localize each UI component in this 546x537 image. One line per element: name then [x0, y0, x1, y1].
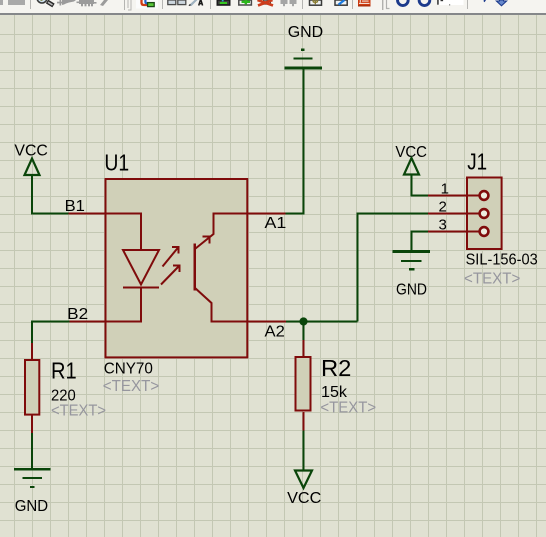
toolbar icon: red list	[358, 0, 371, 7]
toolbar icon: pointer	[57, 0, 76, 6]
toolbar separator 5	[302, 0, 303, 9]
power symbol VCC right	[404, 158, 419, 175]
pin circle 1 of J1	[480, 191, 489, 200]
pin A1 of U1	[246, 213, 286, 215]
svg-text:GND: GND	[15, 498, 48, 515]
svg-text:1: 1	[441, 180, 449, 197]
pin B2 of U1	[70, 321, 107, 323]
wire B2 to R1	[32, 322, 70, 344]
toolbar icon: edit text pen	[189, 0, 203, 6]
svg-text:VCC: VCC	[287, 490, 321, 507]
svg-text:A1: A1	[265, 215, 287, 232]
wire R2 to VCC bottom	[303, 431, 305, 471]
resistor R2 bottom pin	[303, 412, 305, 431]
wire VCC right to J1 pin1	[412, 176, 429, 196]
LED cathode bar	[123, 287, 159, 289]
junction dot node A2	[299, 317, 307, 325]
toolbar separator 1	[30, 0, 31, 9]
toolbar icon: square b	[178, 0, 186, 5]
phototransistor base bar	[193, 244, 196, 291]
wire J1 pin3 to ground right	[412, 232, 429, 252]
power symbol VCC left	[25, 159, 40, 176]
resistor R1 top pin	[31, 343, 33, 359]
toolbar icon: stamp a	[281, 0, 288, 6]
phototransistor arrow head	[203, 237, 210, 244]
toolbar icon: square a	[168, 0, 176, 5]
svg-text:<TEXT>: <TEXT>	[320, 400, 376, 417]
toolbar background	[0, 0, 546, 15]
power symbol VCC bottom (down)	[295, 471, 312, 489]
svg-text:A2: A2	[265, 324, 285, 341]
svg-text:VCC: VCC	[14, 142, 48, 159]
resistor R1 body	[25, 360, 39, 415]
toolbar bracket 2	[387, 0, 390, 9]
phototransistor emitter path	[195, 288, 247, 322]
toolbar separator 7	[382, 0, 383, 10]
svg-text:15k: 15k	[321, 384, 348, 401]
phototransistor collector path	[196, 214, 247, 249]
toolbar separator 6	[352, 0, 353, 9]
wire junction to R2	[303, 322, 305, 341]
svg-text:GND: GND	[396, 282, 427, 299]
svg-text:<TEXT>: <TEXT>	[51, 403, 106, 420]
pin 2 of J1	[428, 213, 480, 215]
pin A2 of U1	[246, 321, 286, 323]
svg-text:2: 2	[439, 198, 447, 215]
toolbar icon: redo arc	[419, 0, 430, 6]
toolbar separator 8	[467, 0, 468, 9]
toolbar icon: blue mark	[484, 0, 486, 2]
svg-text:CNY70: CNY70	[104, 361, 153, 378]
toolbar input box	[437, 0, 463, 6]
pin B1 of U1	[69, 213, 107, 215]
svg-text:B2: B2	[67, 306, 88, 323]
toolbar icon: blue pen box	[335, 0, 347, 5]
LED cathode lead inside U1	[105, 288, 141, 322]
ground symbol bottom left	[14, 469, 51, 487]
svg-text:R1: R1	[51, 357, 77, 383]
wire VCC left to pin B1	[32, 176, 69, 214]
toolbar icon: realtime routing	[136, 0, 158, 9]
LED triangle of U1	[123, 250, 159, 285]
svg-text:GND: GND	[288, 24, 324, 41]
LED anode lead inside U1	[105, 214, 141, 251]
svg-text:3: 3	[439, 216, 447, 233]
op(to)coupler U1 body	[106, 179, 248, 357]
toolbar separator 2	[124, 0, 125, 10]
toolbar separator 3	[162, 0, 163, 9]
connector J1 body	[467, 178, 502, 250]
toolbar bracket	[128, 0, 131, 10]
toolbar icon: pen	[100, 0, 108, 6]
toolbar icon: stamp b	[290, 0, 297, 6]
svg-text:<TEXT>: <TEXT>	[464, 270, 520, 287]
light arrow 2	[161, 266, 180, 285]
resistor R1 bottom pin	[31, 415, 33, 433]
svg-text:R2: R2	[321, 355, 351, 381]
pin 1 of J1	[428, 195, 480, 197]
toolbar icon: dark green view	[217, 0, 229, 5]
svg-text:U1: U1	[104, 150, 129, 176]
toolbar icon: zoom magnifier	[37, 0, 54, 6]
toolbar icon: gray block left	[0, 0, 3, 5]
toolbar icon: undo arc	[398, 0, 409, 6]
resistor R2 top pin	[303, 340, 305, 356]
ground symbol top (flipped up)	[285, 50, 323, 69]
toolbar icon: green plus	[239, 0, 252, 5]
wire A2 to J1 pin2	[358, 214, 429, 322]
resistor R2 body	[296, 357, 311, 411]
wire R1 to ground bottom left	[31, 433, 33, 469]
svg-text:SIL-156-03: SIL-156-03	[466, 252, 538, 269]
ground symbol right	[393, 252, 431, 270]
pin circle 2 of J1	[480, 209, 489, 218]
pin 3 of J1	[428, 231, 480, 233]
toolbar icon: gray block 2	[8, 0, 25, 5]
toolbar icon: chip	[77, 0, 97, 6]
svg-text:J1: J1	[467, 149, 487, 175]
wire GND top to node A1	[286, 69, 304, 214]
toolbar icon: blue down arrow	[496, 0, 506, 6]
light arrow 1	[163, 247, 179, 267]
toolbar separator 4	[210, 0, 211, 9]
pin circle 3 of J1	[480, 227, 489, 236]
toolbar icon: red x	[258, 0, 274, 6]
svg-text:<TEXT>: <TEXT>	[103, 378, 159, 395]
svg-text:B1: B1	[65, 198, 85, 215]
toolbar icon: olive symbol	[310, 0, 322, 5]
wire A2 net horizontal	[286, 321, 358, 323]
